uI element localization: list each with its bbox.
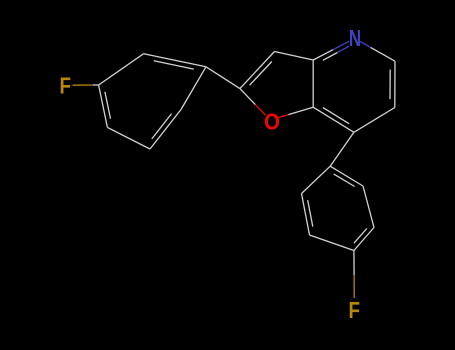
pyridine bond C7-C7a bbox=[313, 107, 354, 132]
phenyl2 ring bond C6''-C1'' bbox=[330, 166, 363, 186]
bond C3a-N (blue near N) bbox=[313, 50, 333, 60]
phenyl1 ring bond C3'-C2' bbox=[144, 54, 206, 67]
bond C4''-F bottom (yellow) bbox=[353, 251, 355, 276]
link bond C7-phenyl2 bbox=[330, 132, 354, 166]
pyridine bond C6-C7 bbox=[354, 108, 395, 133]
bond F-C4' top-left (yellow) bbox=[73, 84, 93, 86]
phenyl1 ring bond C2'-C1' bbox=[181, 67, 206, 110]
phenyl2 ring bond C4''-C5'' bbox=[354, 228, 374, 251]
ring fusion bond C7a-C3a bbox=[312, 60, 314, 107]
phenyl1 double bond inner line (left edge) bbox=[105, 92, 111, 119]
bond C2-O (red near O) bbox=[240, 89, 255, 105]
bond N-C5 (blue near N) bbox=[360, 42, 370, 48]
phenyl2 double bond inner line (left edge) bbox=[308, 200, 313, 227]
atom label F (top-left fluorine) bbox=[60, 73, 71, 100]
phenyl2 ring bond C1''-C2'' bbox=[302, 166, 331, 193]
pyridine bond C5-C6 bbox=[394, 61, 396, 107]
phenyl2 double bond inner line (lower-right edge) bbox=[354, 229, 367, 244]
phenyl2 ring bond C2''-C3'' bbox=[302, 194, 310, 236]
link bond phenyl1-C2 bbox=[206, 67, 240, 89]
furan bond C3-C3a bbox=[275, 52, 314, 61]
bond O-C7a (red near O) bbox=[278, 115, 289, 118]
phenyl1 ring bond C6'-C5' bbox=[107, 127, 150, 149]
furan bond C2=C3 bbox=[240, 52, 275, 89]
double bond C5=C6 inner line bbox=[389, 70, 391, 100]
svg-text:F: F bbox=[60, 73, 71, 100]
atom label N (pyridine nitrogen) bbox=[349, 25, 361, 51]
phenyl1 double bond inner line (lower-right edge) bbox=[152, 114, 172, 139]
double bond C7=C7a inner line bbox=[323, 108, 349, 124]
phenyl2 ring bond C3''-C4'' bbox=[310, 235, 354, 251]
atom label F (bottom fluorine) bbox=[349, 297, 360, 324]
phenyl1 ring bond C5'-C4' bbox=[99, 85, 108, 127]
phenyl2 double bond inner line (upper-right edge) bbox=[334, 174, 355, 187]
svg-text:N: N bbox=[349, 25, 361, 51]
phenyl1 double bond inner line (top edge) bbox=[154, 61, 194, 69]
phenyl1 ring bond C1'-C6' bbox=[150, 110, 181, 150]
svg-text:F: F bbox=[349, 297, 360, 324]
phenyl1 ring bond C4'-C3' bbox=[99, 54, 144, 85]
double bond C3a=N inner line bbox=[323, 53, 338, 61]
atom label O (furan oxygen) bbox=[264, 108, 280, 135]
phenyl2 ring bond C5''-C6'' bbox=[363, 186, 374, 228]
svg-text:O: O bbox=[264, 108, 280, 135]
furan double bond C2=C3 inner line bbox=[250, 62, 272, 86]
